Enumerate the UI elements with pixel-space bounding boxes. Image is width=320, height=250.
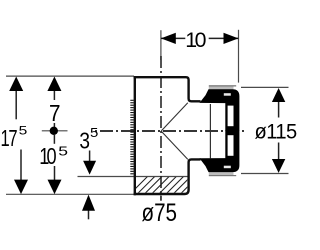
svg-text:5: 5: [19, 123, 28, 137]
svg-text:ø75: ø75: [142, 198, 178, 226]
svg-text:7: 7: [49, 100, 61, 126]
svg-text:5: 5: [58, 144, 68, 158]
svg-text:10: 10: [39, 144, 56, 169]
svg-text:5: 5: [90, 126, 99, 140]
svg-text:17: 17: [1, 126, 18, 151]
svg-text:10: 10: [185, 28, 206, 52]
svg-text:3: 3: [79, 128, 90, 154]
svg-text:ø115: ø115: [255, 120, 297, 144]
